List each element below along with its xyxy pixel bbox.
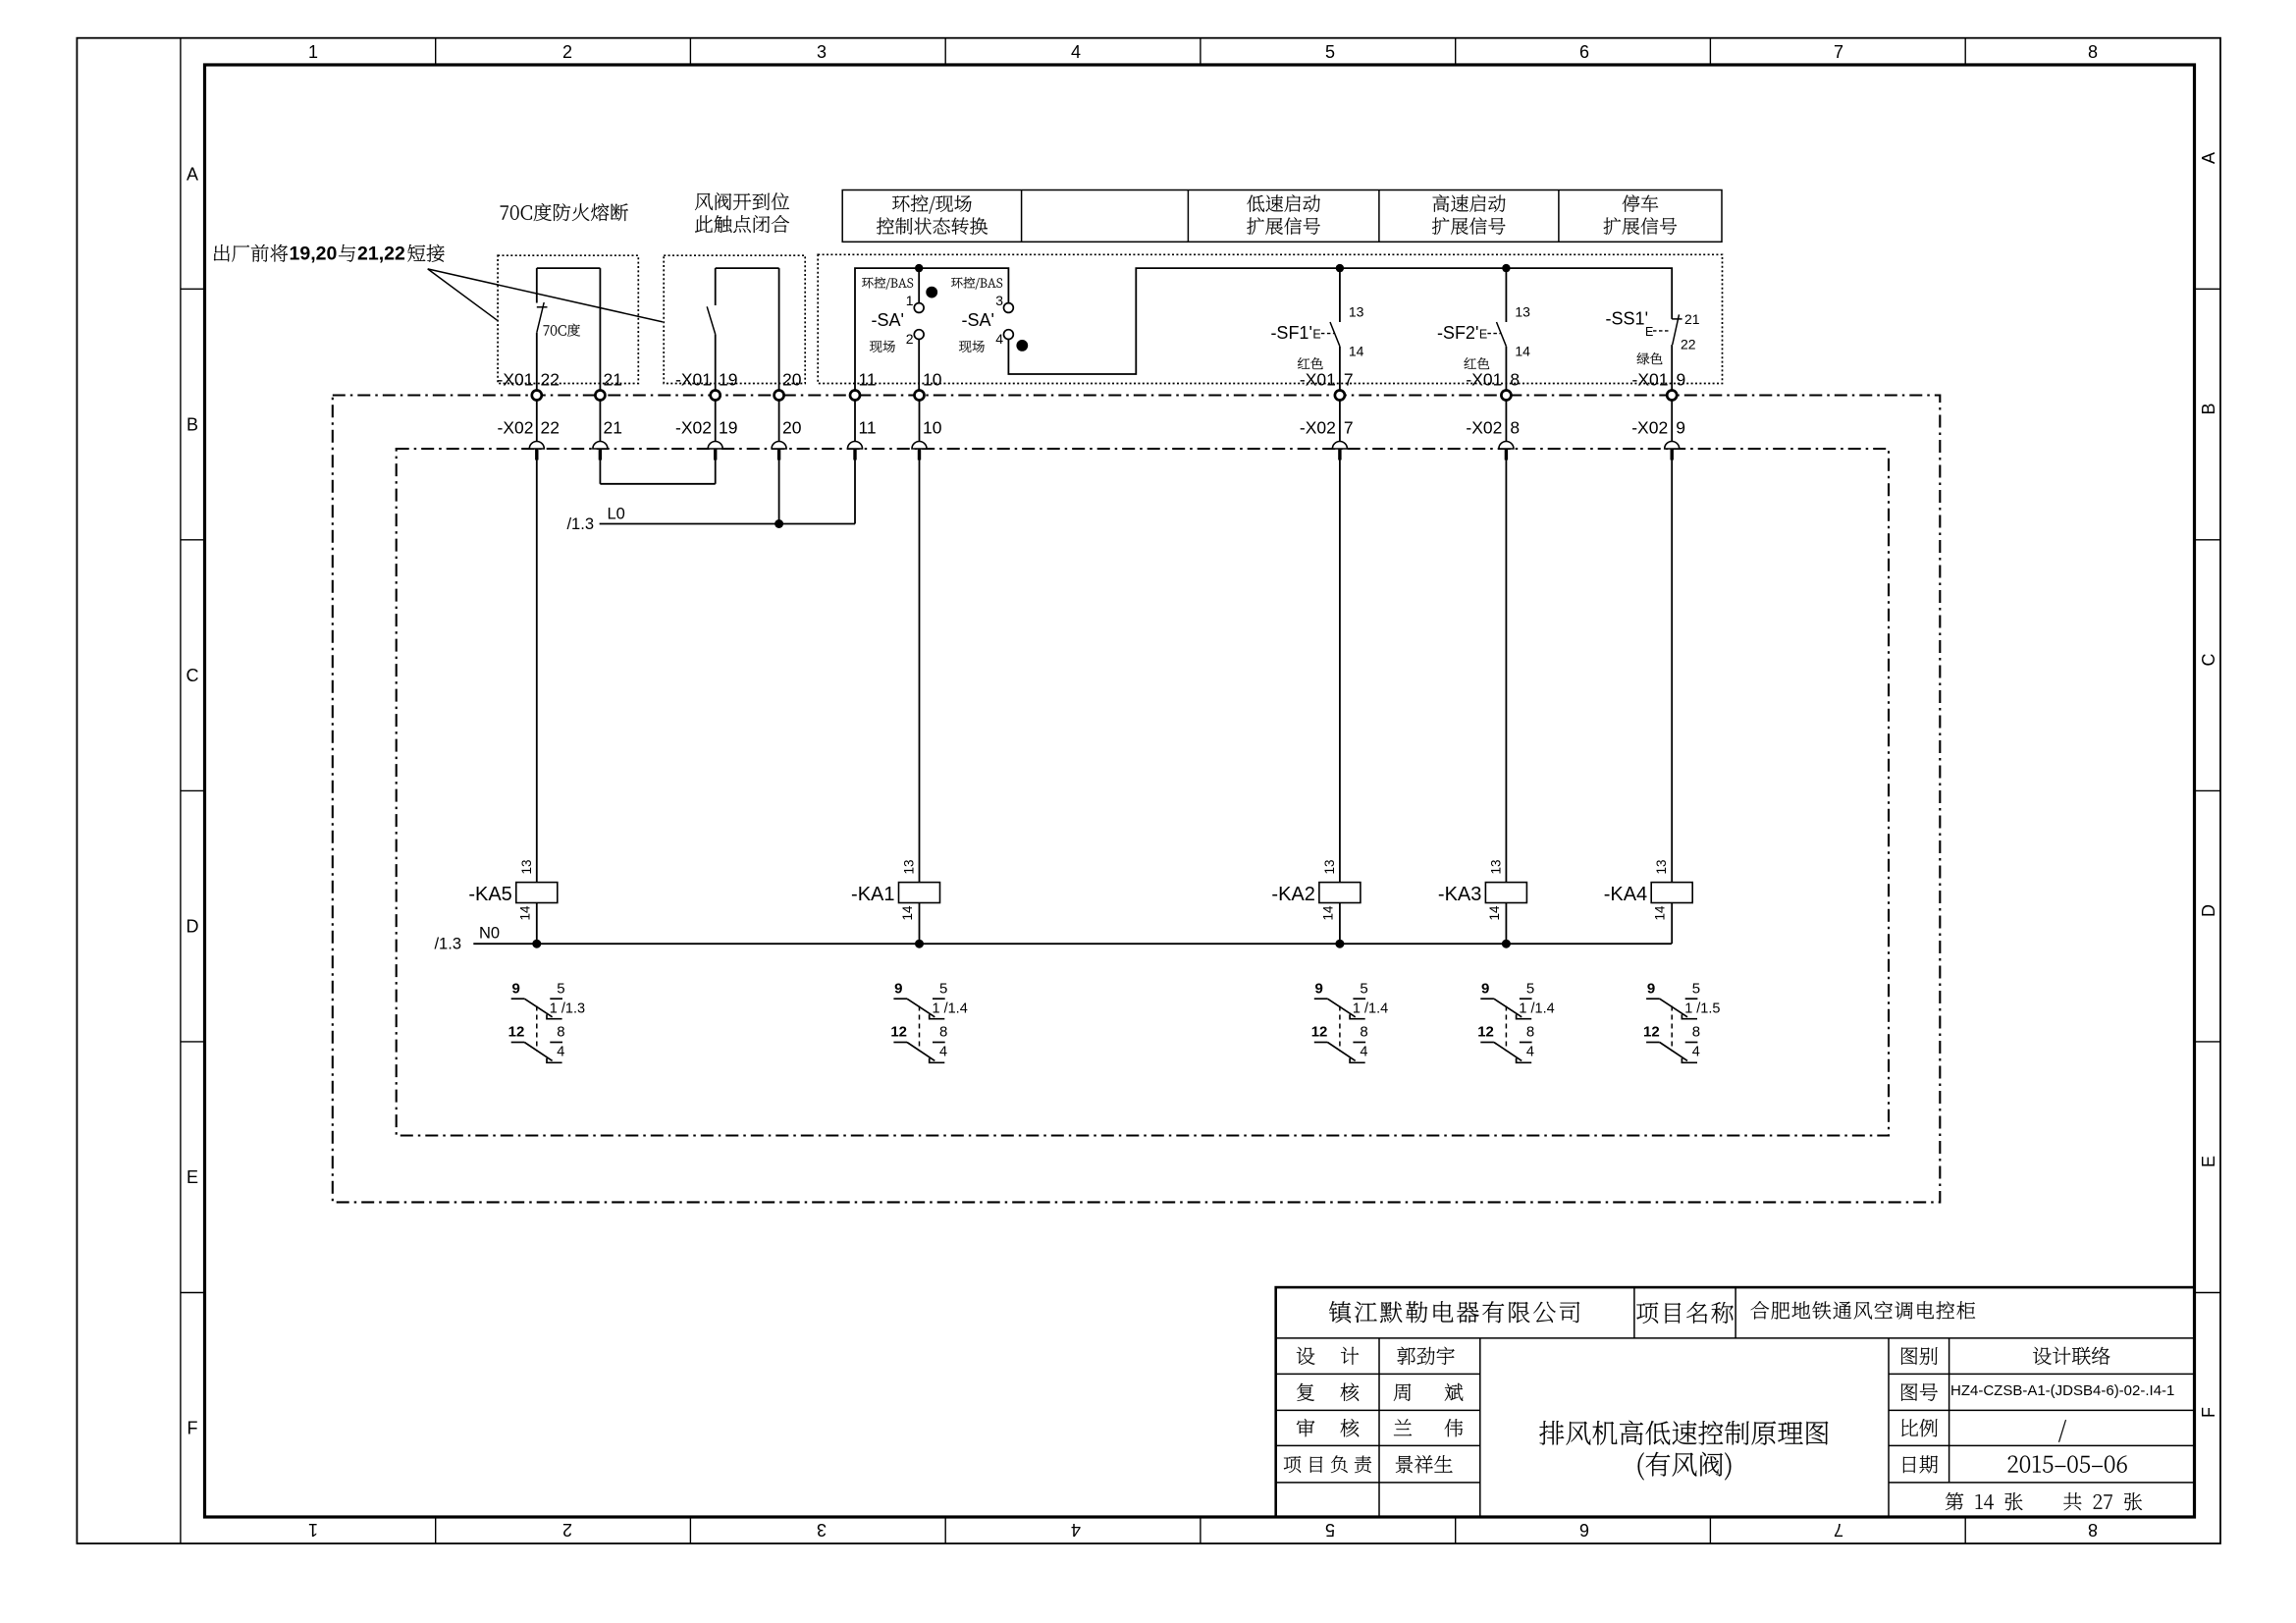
svg-text:E: E [1645,325,1653,339]
relay coil KA2 [1319,883,1361,903]
signal header box [842,190,1722,243]
relay coil KA5 [516,883,558,903]
svg-text:4: 4 [939,1045,947,1060]
svg-text:2: 2 [906,331,914,347]
wire: 19 down [715,460,717,484]
svg-text:6: 6 [1579,42,1589,62]
terminal -X02:20 [772,442,786,449]
svg-text:22: 22 [541,370,560,390]
svg-text:20: 20 [782,370,802,390]
terminal -X01:7 [1335,391,1345,401]
terminal -X01:21 [595,391,605,401]
label: 绿色 [1637,352,1663,364]
svg-text:/1.3: /1.3 [434,936,461,953]
node: L0 junction at 20 [774,519,783,528]
svg-text:L0: L0 [608,506,625,523]
damper limit switch wiring [716,268,779,391]
svg-text:13: 13 [902,859,917,874]
wire: coil KA1 to N0 [919,903,921,945]
svg-text:-KA3: -KA3 [1438,884,1481,905]
svg-text:14: 14 [900,905,915,921]
wire: coil KA5 to N0 [536,903,538,945]
push button -SF2' wiring [1505,268,1507,391]
wire: 11 down to L0 [854,460,856,524]
selector -SA second, contact 3 [1004,303,1014,313]
svg-text:1 /1.3: 1 /1.3 [550,1001,585,1017]
terminal -X02:11 [848,442,863,449]
label: high-speed start header [1433,194,1506,212]
svg-text:-SS1': -SS1' [1606,309,1648,329]
wire: coil KA2 to N0 [1339,903,1341,945]
terminal -X01:10 [915,391,925,401]
svg-text:8: 8 [2088,1520,2098,1540]
leader line to fuse box [428,269,498,321]
svg-text:4: 4 [1071,1520,1081,1540]
terminal -X01:19 [711,391,721,401]
label: damper heading [695,192,789,210]
selector -SA first position dot [926,287,937,298]
title: drawing number label [1901,1383,1938,1401]
stop button -SS1 blade [1673,314,1680,345]
thermal contact 70C tick [537,306,548,308]
dotted enclosure: damper contact [664,255,805,383]
terminal -X01:20 [774,391,784,401]
title: sheet class label [1901,1347,1938,1365]
title: auditor row [1297,1419,1314,1436]
svg-text:-SA': -SA' [872,310,904,330]
label: 环控/BAS (SA1) [862,277,913,290]
terminal -X01:11 [850,391,860,401]
svg-text:10: 10 [923,418,942,438]
svg-text:3: 3 [817,1520,827,1540]
label: low-speed start header [1247,194,1319,212]
svg-text:3: 3 [817,42,827,62]
terminal -X02:19 [708,442,722,449]
svg-text:1 /1.5: 1 /1.5 [1684,1001,1720,1017]
terminal -X02:10 [912,442,927,449]
svg-text:8: 8 [1526,1024,1534,1041]
selector -SA first, contact 2 [914,330,924,340]
dotted enclosure: 70C fuse [498,255,638,383]
node: junction -SF1' on bus [1336,264,1344,272]
svg-text:9: 9 [1647,981,1655,998]
svg-text:5: 5 [1526,981,1534,998]
svg-text:2: 2 [562,42,572,62]
svg-text:8: 8 [557,1024,564,1041]
svg-text:4: 4 [995,331,1003,347]
relay coil KA3 [1485,883,1526,903]
wire: 20 down to L0 [778,460,780,524]
selector -SA first, contact 1 [914,303,924,313]
svg-text:F: F [187,1418,198,1437]
node: N0 junction KA1 [915,940,924,948]
panel boundary (inner dash-dot box) [397,449,1889,1136]
svg-text:9: 9 [1676,418,1685,438]
svg-text:5: 5 [1360,981,1367,998]
svg-text:21: 21 [1684,311,1700,327]
svg-text:B: B [187,414,198,434]
wire: bus SA1 to SA2 [919,268,1008,303]
svg-text:1: 1 [308,42,318,62]
label: 现场 (SA2) [959,341,985,352]
wire: 7 down to KA2 [1339,460,1341,883]
svg-text:4: 4 [557,1045,564,1060]
svg-text:C: C [2199,654,2218,667]
wire: 8 down to KA3 [1505,460,1507,883]
svg-text:-KA5: -KA5 [468,884,511,905]
svg-text:9: 9 [894,981,902,998]
label: 红色 -SF1' [1298,357,1323,369]
wire: SS1 lower [1671,345,1673,391]
wire: coil KA4 to N0 [1671,903,1673,945]
svg-text:12: 12 [1477,1024,1494,1041]
svg-text:20: 20 [782,418,802,438]
svg-text:6: 6 [1579,1520,1589,1540]
svg-text:-X01: -X01 [1300,370,1336,390]
title: designer row [1297,1347,1315,1365]
svg-text:3: 3 [995,293,1003,308]
net N0 [473,943,1672,945]
push button -SF2' blade [1497,322,1507,347]
svg-text:12: 12 [890,1024,907,1041]
dotted enclosure: field devices [818,254,1722,383]
svg-text:8: 8 [1360,1024,1367,1041]
svg-text:21: 21 [604,418,622,438]
svg-text:12: 12 [1311,1024,1328,1041]
svg-text:-X02: -X02 [1466,418,1502,438]
svg-text:12: 12 [1643,1024,1660,1041]
node: N0 junction KA5 [532,940,541,948]
svg-text:D: D [187,916,199,936]
terminal -X01:8 [1501,391,1511,401]
terminal -X02:22 [529,442,544,449]
title: checker row [1297,1383,1314,1401]
svg-text:13: 13 [519,859,534,874]
terminal -X02:21 [593,442,608,449]
svg-text:1: 1 [308,1520,318,1540]
node: N0 junction KA3 [1502,940,1511,948]
label: 70C度 [544,324,580,337]
svg-text:14: 14 [517,905,532,921]
svg-text:9: 9 [1677,370,1686,390]
svg-text:F: F [2199,1407,2218,1418]
terminal -X02:8 [1499,442,1514,449]
svg-text:-X02: -X02 [1631,418,1668,438]
svg-text:-KA2: -KA2 [1271,884,1314,905]
svg-text:E: E [1479,328,1487,342]
svg-text:-X01: -X01 [1466,370,1502,390]
svg-text:1 /1.4: 1 /1.4 [1519,1001,1554,1017]
svg-text:HZ4-CZSB-A1-(JDSB4-6)-02-.I4-1: HZ4-CZSB-A1-(JDSB4-6)-02-.I4-1 [1950,1382,2174,1399]
net L0 [600,523,855,525]
svg-text:B: B [2199,403,2218,414]
node: junction on bus [915,264,923,272]
svg-text:5: 5 [557,981,564,998]
title: project lead row [1284,1455,1371,1473]
wire: link 21-19 [600,483,715,485]
svg-text:5: 5 [1325,42,1335,62]
push button -SF1' blade [1330,322,1340,347]
wire: coil KA3 to N0 [1505,903,1507,945]
svg-text:2: 2 [562,1520,572,1540]
node: junction -SF2' on bus [1502,264,1510,272]
cabinet boundary (outer dash-dot box) [333,396,1941,1203]
label: control mode header [892,195,972,214]
node: N0 junction KA2 [1335,940,1344,948]
svg-text:19: 19 [719,370,737,390]
leader line to damper box [428,269,663,322]
svg-text:13: 13 [1322,859,1337,874]
wires X01 to X02 [536,401,538,442]
label: 70C fuse heading [501,203,628,221]
svg-text:8: 8 [1510,370,1520,390]
svg-text:-KA1: -KA1 [851,884,894,905]
svg-text:10: 10 [923,370,942,390]
svg-text:-X02: -X02 [1300,418,1336,438]
svg-text:-X01: -X01 [675,370,712,390]
svg-text:7: 7 [1834,1520,1843,1540]
svg-text:21,22: 21,22 [357,243,405,265]
svg-text:19,20: 19,20 [290,243,338,265]
wire: 21 down [599,460,601,484]
svg-text:-X01: -X01 [1632,370,1669,390]
svg-text:14: 14 [1515,344,1530,359]
svg-text:-SF1': -SF1' [1270,323,1311,343]
svg-text:N0: N0 [479,925,500,943]
svg-text:19: 19 [719,418,737,438]
svg-text:-SA': -SA' [962,310,994,330]
svg-text:8: 8 [1692,1024,1700,1041]
title: sheet count [1946,1492,2142,1510]
svg-text:1 /1.4: 1 /1.4 [933,1001,968,1017]
label: 红色 -SF2' [1465,357,1490,369]
svg-text:13: 13 [1488,859,1503,874]
thermal contact 70C blade [537,302,544,333]
svg-text:8: 8 [1510,418,1520,438]
title: company name [1329,1301,1579,1323]
svg-text:A: A [187,164,198,184]
wire: 22 down to KA5 [536,460,538,883]
svg-text:7: 7 [1834,42,1843,62]
svg-text:21: 21 [604,370,622,390]
svg-text:9: 9 [511,981,519,998]
svg-text:A: A [2199,152,2218,164]
svg-text:1 /1.4: 1 /1.4 [1353,1001,1388,1017]
svg-text:12: 12 [508,1024,525,1041]
svg-text:E: E [187,1167,198,1187]
selector -SA second, contact 4 [1004,330,1014,340]
svg-text:13: 13 [1349,304,1364,320]
terminal -X01:22 [532,391,542,401]
title: project name value [1751,1301,1976,1320]
svg-text:-SF2': -SF2' [1437,323,1478,343]
wire: SA1 drop [918,268,920,391]
relay coil KA1 [899,883,940,903]
svg-text:13: 13 [1515,304,1530,320]
svg-text:7: 7 [1344,370,1354,390]
thermal contact 70C wiring [537,268,601,391]
relay coil KA4 [1651,883,1692,903]
svg-text:11: 11 [859,418,877,438]
title: drawing title [1539,1421,1828,1445]
push button -SF1' wiring [1339,268,1341,391]
svg-text:14: 14 [1349,344,1364,359]
svg-text:8: 8 [2088,42,2098,62]
svg-text:22: 22 [1681,337,1696,352]
svg-text:4: 4 [1071,42,1081,62]
terminal -X02:7 [1332,442,1347,449]
svg-text:E: E [2199,1156,2218,1167]
svg-text:8: 8 [939,1024,947,1041]
svg-text:22: 22 [541,418,560,438]
stop button -SS1 contact seat [1672,318,1682,320]
svg-text:9: 9 [1315,981,1323,998]
svg-text:14: 14 [1653,905,1668,921]
svg-text:5: 5 [939,981,947,998]
title: project name label [1636,1302,1734,1324]
svg-text:C: C [187,666,199,685]
svg-text:-X02: -X02 [498,418,534,438]
svg-text:11: 11 [859,370,877,390]
svg-text:14: 14 [1487,905,1502,921]
svg-text:1: 1 [906,293,914,308]
label: 现场 (SA1) [870,341,895,352]
svg-text:7: 7 [1344,418,1354,438]
svg-text:-KA4: -KA4 [1604,884,1647,905]
svg-text:D: D [2199,904,2218,917]
svg-text:4: 4 [1692,1045,1700,1060]
svg-text:-X01: -X01 [498,370,534,390]
svg-text:/1.3: /1.3 [566,515,594,533]
wire: 9 down to KA4 [1671,460,1673,883]
title block frame [1276,1287,2195,1517]
wire: terminal 11 riser [855,268,919,391]
wire: 10 down to KA1 [919,460,921,883]
terminal -X02:9 [1665,442,1680,449]
svg-text:9: 9 [1481,981,1489,998]
svg-text:E: E [1312,328,1320,342]
svg-text:4: 4 [1526,1045,1534,1060]
damper limit switch blade [707,306,716,334]
label: stop header [1623,194,1658,211]
svg-text:5: 5 [1692,981,1700,998]
terminal -X01:9 [1667,391,1677,401]
svg-text:-X02: -X02 [675,418,712,438]
title: scale label [1901,1419,1937,1436]
title: date label [1903,1455,1938,1473]
svg-text:4: 4 [1360,1045,1367,1060]
label: 环控/BAS (SA2) [951,277,1002,290]
note: factory shorting annotation [214,244,288,262]
selector -SA second position dot [1016,340,1028,352]
svg-text:13: 13 [1654,859,1669,874]
svg-text:14: 14 [1320,905,1335,921]
wire: SA2 bypass to top bus [1008,268,1672,374]
svg-text:5: 5 [1325,1520,1335,1540]
